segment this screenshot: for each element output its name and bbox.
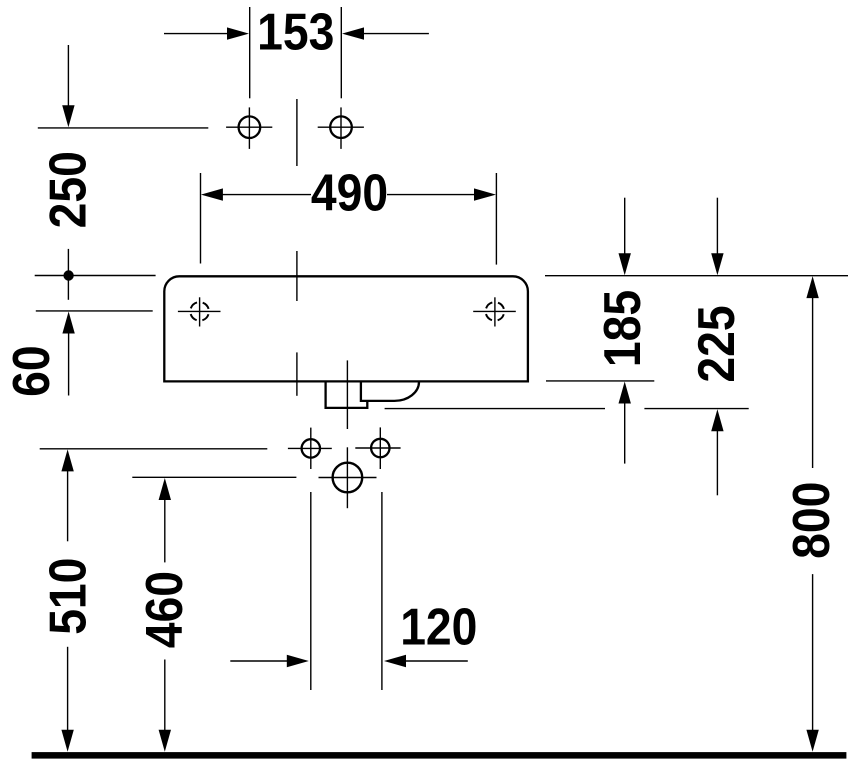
- dim 185: top arrow shaft: [624, 198, 626, 255]
- dim 490: extension line right: [495, 173, 497, 265]
- dim 153: left leader: [164, 33, 229, 35]
- basin centerline upper segment: [296, 251, 298, 301]
- dim 225: top arrow shaft: [716, 198, 718, 255]
- reference line at drain bottom level segment 1: [385, 408, 605, 410]
- dim 153: right leader: [363, 33, 429, 35]
- mount hole left: crosshair horizontal: [288, 447, 332, 449]
- dim 510: reference line: [40, 448, 268, 450]
- dim 510: lower shaft: [67, 647, 69, 731]
- svg-text:225: 225: [687, 305, 745, 382]
- dim 120: extension line left: [310, 492, 312, 690]
- basin centerline lower segment: [296, 352, 298, 395]
- dim 800: arrowhead down: [806, 730, 818, 752]
- reference line at basin bottom level (right): [546, 380, 654, 382]
- anchor hole left: crosshair horizontal: [226, 126, 272, 128]
- reference line at faucet hole level (left): [36, 310, 153, 312]
- faucet hole right: crosshair vertical: [494, 297, 496, 326]
- mount hole right circle: [371, 439, 389, 457]
- anchor hole right circle: [330, 116, 352, 138]
- label 225: [687, 305, 745, 382]
- dim 225: bottom arrow shaft: [716, 430, 718, 495]
- basin outline: [164, 276, 528, 381]
- mount hole right: crosshair horizontal: [355, 447, 400, 449]
- dim 800: top arrow shaft: [812, 297, 814, 468]
- svg-text:120: 120: [400, 598, 477, 656]
- dim 185: arrowhead up: [619, 382, 631, 404]
- dim 800: bottom shaft: [812, 574, 814, 731]
- dim 120: left leader: [230, 660, 288, 662]
- svg-text:250: 250: [39, 151, 97, 228]
- reference line at drain bottom level segment 2: [644, 408, 748, 410]
- dim 225: arrowhead up: [711, 409, 723, 431]
- dim 250: endpoint dot: [63, 270, 73, 280]
- svg-text:153: 153: [257, 3, 334, 61]
- dim 250: top reference line: [38, 127, 209, 129]
- drain pipe circle: [333, 463, 363, 493]
- dim 800: arrowhead up: [806, 276, 818, 298]
- dim 460: upper arrow shaft: [164, 499, 166, 562]
- anchor hole right: crosshair horizontal: [318, 126, 364, 128]
- dim 153: arrowhead right-pointing: [227, 27, 249, 39]
- reference line at basin top level (left): [35, 275, 156, 277]
- mount hole left circle: [302, 439, 320, 457]
- svg-text:60: 60: [3, 345, 61, 396]
- floor line: [32, 752, 847, 759]
- label 800: [783, 482, 841, 559]
- faucet hole right: crosshair horizontal: [473, 310, 516, 312]
- anchor hole left circle: [239, 116, 261, 138]
- dim 153: arrowhead left-pointing: [342, 27, 364, 39]
- label 250: [39, 151, 97, 228]
- faucet hole left: crosshair vertical: [199, 297, 201, 326]
- dim 510: arrowhead up: [61, 449, 73, 471]
- anchor hole right: crosshair vertical: [340, 107, 342, 148]
- dim 60: arrow shaft: [68, 333, 70, 396]
- faucet hole right dashed circle: [486, 302, 505, 321]
- drain trap outer outline: [326, 381, 368, 408]
- dim 250: lower stub through dot: [67, 249, 69, 300]
- centerline between anchor holes: [296, 99, 298, 166]
- dim 250: top arrow shaft: [67, 45, 69, 108]
- label 490: [311, 164, 388, 222]
- dim 120: extension line right: [381, 492, 383, 690]
- mount hole left: crosshair vertical: [310, 428, 312, 469]
- dim 120: arrowhead right-pointing: [287, 655, 309, 667]
- dim 153: extension line left: [249, 7, 251, 98]
- dim 490: extension line left: [200, 173, 202, 264]
- svg-text:800: 800: [783, 482, 841, 559]
- mount hole right: crosshair vertical: [379, 427, 381, 469]
- svg-text:510: 510: [39, 558, 97, 635]
- dim 60: arrowhead up: [62, 312, 74, 334]
- label 153: [257, 3, 334, 61]
- label 185: [593, 290, 651, 367]
- label 60: [3, 345, 61, 396]
- dim 460: lower shaft: [164, 660, 166, 732]
- faucet hole left: crosshair horizontal: [178, 310, 221, 312]
- dim 460: arrowhead down: [159, 730, 171, 752]
- label 510: [39, 558, 97, 635]
- dim 460: reference line: [132, 476, 296, 478]
- dim 510: upper arrow shaft: [67, 470, 69, 541]
- dim 490: arrowhead right-pointing: [474, 188, 496, 200]
- faucet hole left dashed circle: [190, 302, 209, 321]
- anchor hole left: crosshair vertical: [248, 107, 250, 148]
- svg-text:185: 185: [593, 290, 651, 367]
- drain pipe: crosshair vertical: [346, 447, 348, 508]
- label 120: [400, 598, 477, 656]
- dim 490: arrowhead left-pointing: [201, 188, 223, 200]
- drain trap inner outline with overflow curve: [361, 381, 419, 401]
- drain centerline through trap: [346, 360, 348, 429]
- dim 120: arrowhead left-pointing: [384, 655, 406, 667]
- svg-text:490: 490: [311, 164, 388, 222]
- dim 490: dimension line left segment: [221, 194, 311, 196]
- dim 185: bottom arrow shaft: [624, 403, 626, 464]
- dim 120: right leader: [405, 660, 468, 662]
- dim 153: extension line right: [340, 7, 342, 98]
- svg-text:460: 460: [135, 571, 193, 648]
- dim 225: arrowhead down: [711, 253, 723, 275]
- reference line at basin top level (right): [545, 275, 848, 277]
- dim 250: arrowhead down: [62, 105, 74, 127]
- dim 460: arrowhead up: [159, 478, 171, 500]
- dim 185: arrowhead down: [619, 253, 631, 275]
- dim 490: dimension line right segment: [387, 194, 476, 196]
- drain pipe: crosshair horizontal: [319, 477, 377, 479]
- label 460: [135, 571, 193, 648]
- dim 510: arrowhead down: [61, 730, 73, 752]
